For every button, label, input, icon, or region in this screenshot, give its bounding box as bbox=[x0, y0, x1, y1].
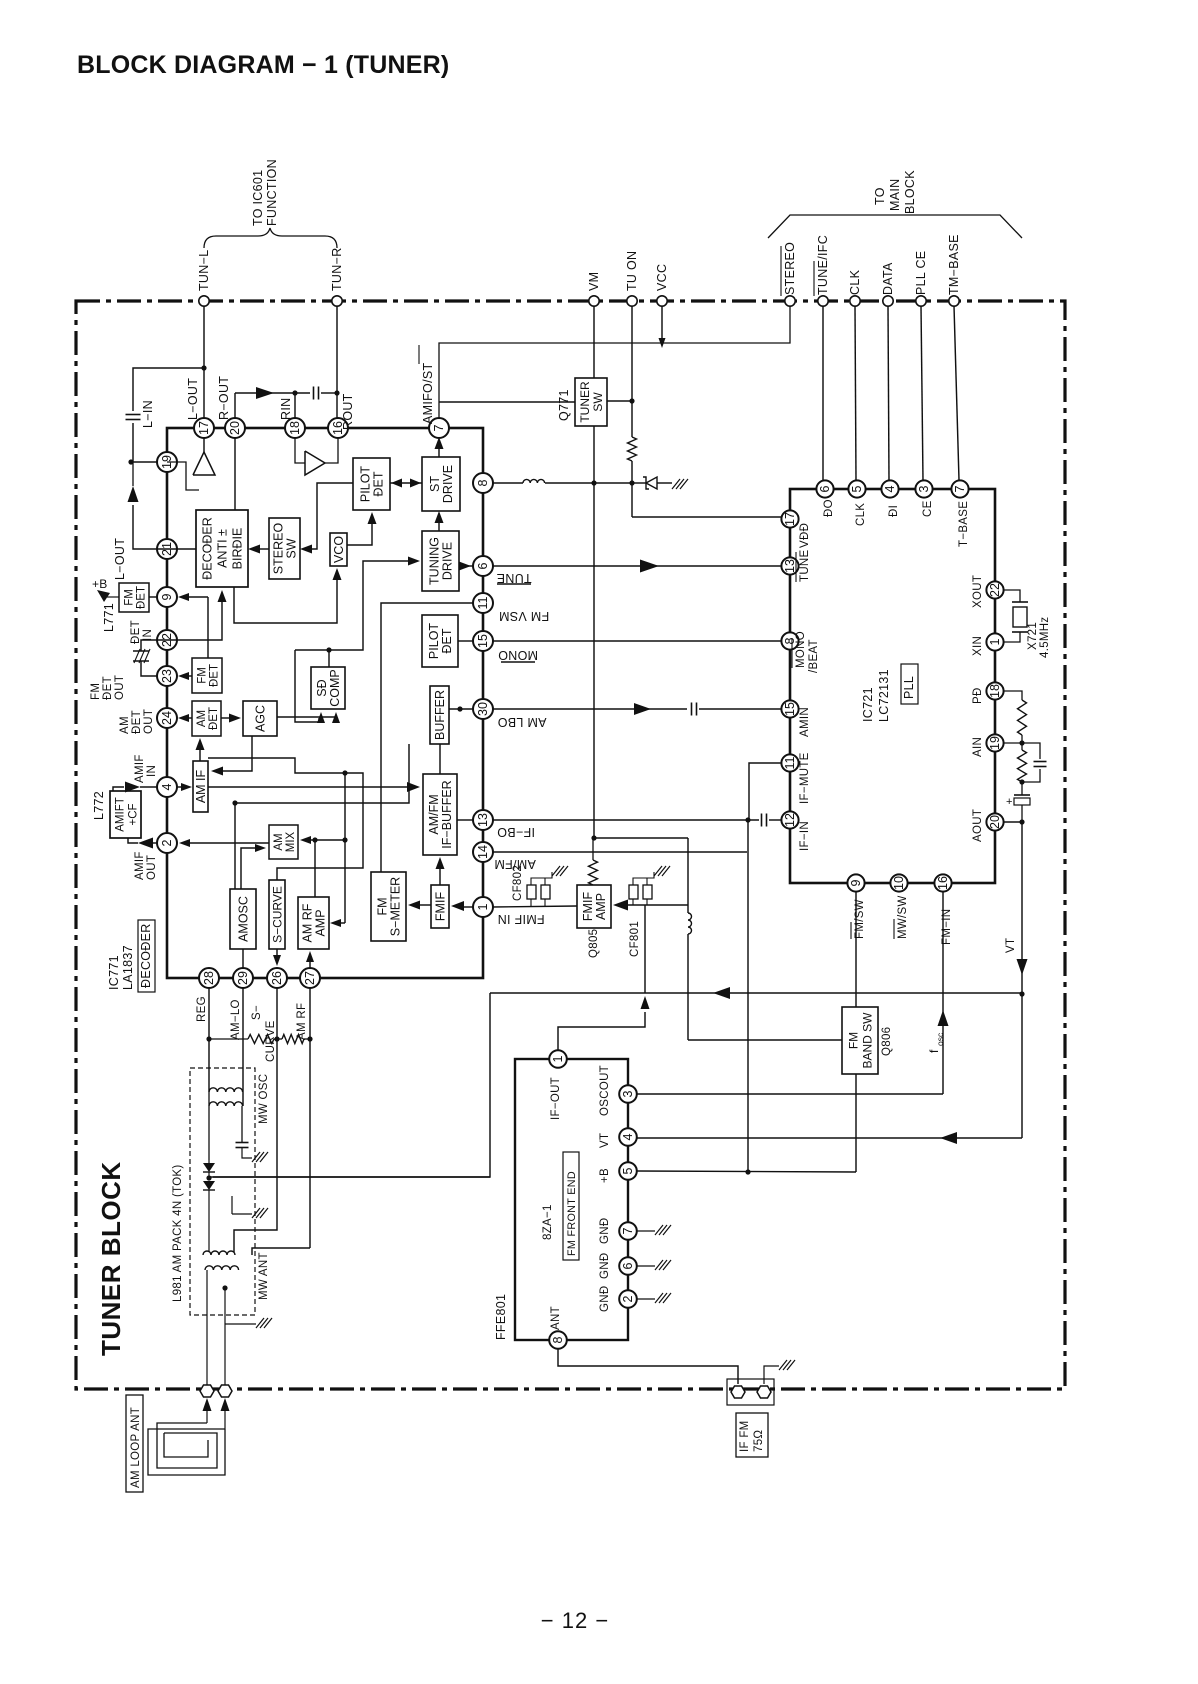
svg-text:OSCOUT: OSCOUT bbox=[599, 1065, 611, 1116]
electrolytic capacitor C723 bbox=[1006, 782, 1030, 822]
ceramic filter CF801 bbox=[629, 866, 670, 957]
wire pin2 to L772 arrow bbox=[128, 838, 158, 849]
block FM DET upper bbox=[119, 583, 149, 612]
svg-text:AMP: AMP bbox=[594, 893, 608, 920]
wire MONO pin15 to IC721 pin8 bbox=[492, 640, 781, 642]
svg-text:8: 8 bbox=[551, 1336, 565, 1343]
label AM DET OUT bbox=[119, 709, 155, 734]
pin 16 bbox=[328, 418, 348, 438]
svg-text:10: 10 bbox=[892, 876, 906, 890]
svg-text:VCO: VCO bbox=[332, 536, 346, 563]
wire AGC to SB COMP arrow 2 bbox=[277, 712, 340, 723]
label CE pin3 bbox=[922, 500, 934, 517]
wire AM RF line bbox=[307, 987, 312, 1248]
wire MW ANT left lead bbox=[206, 1270, 208, 1389]
svg-text:MAIN: MAIN bbox=[888, 179, 902, 211]
svg-text:PILOT: PILOT bbox=[359, 466, 373, 502]
label FM FRONT END boxed bbox=[563, 1152, 579, 1260]
svg-text:FM: FM bbox=[197, 667, 209, 684]
svg-text:ĐET: ĐET bbox=[136, 586, 148, 609]
label IF-IN bbox=[799, 821, 811, 851]
svg-text:AMIF: AMIF bbox=[134, 754, 146, 783]
svg-text:ĐET: ĐET bbox=[372, 471, 386, 496]
label TUNE pin13 bbox=[796, 549, 811, 582]
bracket TO MAIN BLOCK bbox=[768, 170, 1022, 238]
svg-text:RIN: RIN bbox=[279, 398, 293, 420]
label MW/SW bbox=[894, 895, 909, 939]
svg-text:TUNING: TUNING bbox=[428, 537, 442, 585]
wire DECODER bottom to VCO bbox=[234, 568, 342, 623]
component L772 AMIFT+CF bbox=[92, 791, 141, 838]
wire pin14 AM/FM bbox=[492, 851, 747, 853]
svg-text:IF−BUFFER: IF−BUFFER bbox=[440, 780, 454, 848]
svg-text:9: 9 bbox=[160, 593, 174, 600]
IC721 pin 10 bbox=[890, 874, 907, 891]
svg-text:CE: CE bbox=[922, 500, 934, 517]
FFE801 pin 8 bbox=[549, 1331, 567, 1349]
svg-text:f: f bbox=[927, 1049, 941, 1053]
pin 11 bbox=[473, 593, 493, 613]
svg-text:7: 7 bbox=[432, 424, 446, 431]
resistor R982 bbox=[274, 1035, 310, 1044]
pin 15 bbox=[473, 631, 493, 651]
svg-text:5: 5 bbox=[850, 485, 864, 492]
IC721 pin 4 bbox=[881, 480, 898, 497]
pin 8 bbox=[473, 473, 493, 493]
label f osc bbox=[927, 1032, 945, 1053]
pin 26 bbox=[267, 968, 287, 988]
svg-text:ĐET: ĐET bbox=[131, 710, 143, 734]
label XIN bbox=[972, 636, 984, 656]
pin 22 bbox=[157, 630, 177, 650]
svg-text:3: 3 bbox=[621, 1090, 635, 1097]
svg-text:LA1837: LA1837 bbox=[121, 945, 135, 990]
ground at pin7 bbox=[637, 1225, 671, 1235]
label MONO (rotated) bbox=[498, 648, 538, 662]
capacitor C722 parallel bbox=[1022, 743, 1047, 782]
IC721 pin 9 bbox=[847, 874, 864, 891]
connector pins AM ANT bbox=[200, 1385, 232, 1411]
wire AGC to AM IF arrow bbox=[211, 736, 252, 776]
svg-text:IN: IN bbox=[146, 765, 158, 777]
label FM-IN bbox=[941, 909, 953, 945]
IC721 pin 5 bbox=[848, 480, 865, 497]
svg-text:ĐECOĐER: ĐECOĐER bbox=[201, 517, 215, 580]
svg-text:L−IN: L−IN bbox=[141, 400, 155, 428]
label RIN bbox=[279, 398, 293, 420]
svg-text:ĐO: ĐO bbox=[823, 499, 835, 517]
svg-text:15: 15 bbox=[783, 702, 797, 716]
svg-text:20: 20 bbox=[228, 421, 242, 435]
svg-text:4: 4 bbox=[621, 1133, 635, 1140]
ceramic filter CF802 bbox=[512, 865, 568, 907]
IC721 designator labels bbox=[861, 664, 918, 722]
svg-text:L772: L772 bbox=[92, 791, 106, 820]
svg-text:AMIN: AMIN bbox=[799, 707, 811, 737]
tuner block border (dash-dot frame) bbox=[76, 301, 1065, 1389]
FFE801 pin 4 bbox=[619, 1128, 637, 1146]
pin 7 bbox=[429, 418, 449, 438]
svg-text:20: 20 bbox=[988, 815, 1002, 829]
wire CLK to pin5 bbox=[855, 306, 856, 480]
svg-text:CLK: CLK bbox=[848, 269, 862, 295]
svg-text:18: 18 bbox=[288, 421, 302, 435]
FFE801 pin 7 bbox=[619, 1222, 637, 1240]
svg-text:TUNE: TUNE bbox=[496, 571, 531, 585]
svg-text:9: 9 bbox=[849, 879, 863, 886]
IC721 pin 15 bbox=[781, 700, 798, 717]
FFE801 pin 2 bbox=[619, 1290, 637, 1308]
label 8ZA-1 bbox=[542, 1204, 554, 1240]
wire PILOT DET to STEREO SW bbox=[300, 483, 353, 554]
pin 21 bbox=[157, 539, 177, 559]
wire TU ON vertical bbox=[631, 306, 633, 437]
svg-text:MIX: MIX bbox=[285, 831, 297, 852]
svg-text:IF−IN: IF−IN bbox=[799, 821, 811, 851]
wire AM-LO line bbox=[242, 987, 244, 1106]
pin 27 bbox=[300, 968, 320, 988]
wire TUN-L to pin 17 bbox=[201, 306, 206, 419]
wire S-CURVE into pack bbox=[234, 1038, 277, 1252]
wire S-CURVE to pin26 arrow bbox=[273, 949, 281, 966]
IC771 designator labels bbox=[107, 920, 155, 992]
brace TO IC601 FUNCTION bbox=[204, 159, 337, 248]
svg-text:AM LOOP ANT: AM LOOP ANT bbox=[130, 1407, 142, 1488]
svg-text:24: 24 bbox=[160, 711, 174, 725]
block AM RF AMP bbox=[298, 897, 329, 949]
wire CF801 to Q805 arrow bbox=[613, 900, 688, 911]
wire SB COMP bottom arrow 1 bbox=[295, 650, 325, 723]
svg-text:4: 4 bbox=[160, 783, 174, 790]
wire AM DET to pin24 arrow bbox=[178, 714, 192, 722]
svg-text:FM: FM bbox=[847, 1032, 861, 1049]
wire pin9 net bbox=[178, 593, 208, 658]
wire IC721 pin11 IF-MUTE jog bbox=[749, 763, 781, 820]
svg-text:Q771: Q771 bbox=[557, 389, 571, 421]
svg-text:OUT: OUT bbox=[146, 855, 158, 880]
block AM DET bbox=[192, 701, 221, 736]
internal net y803 bbox=[235, 744, 409, 803]
label GND pin7 bbox=[599, 1218, 611, 1244]
wire FM DET lower to pin23 arrow bbox=[178, 672, 192, 680]
svg-text:IN: IN bbox=[142, 629, 154, 641]
wire FFE801 pin1 to IF line arrow bbox=[558, 996, 650, 1050]
svg-text:TO: TO bbox=[873, 187, 887, 205]
wire SB COMP feed bbox=[295, 557, 420, 668]
svg-text:22: 22 bbox=[988, 583, 1002, 597]
node TM-BASE bbox=[947, 234, 961, 306]
svg-text:12: 12 bbox=[783, 813, 797, 827]
wire FFE801 pin8 to FM jack bbox=[558, 1349, 738, 1384]
svg-text:SW: SW bbox=[285, 538, 299, 558]
block FMIF bbox=[431, 885, 449, 928]
label AOUT bbox=[972, 809, 984, 842]
svg-text:FMIF: FMIF bbox=[581, 892, 595, 922]
svg-text:8ZA−1: 8ZA−1 bbox=[542, 1204, 554, 1240]
svg-text:ĐI: ĐI bbox=[888, 505, 900, 517]
label AM/FM (rotated) bbox=[494, 857, 536, 871]
trimmer capacitor CT771 bbox=[133, 640, 158, 676]
IC721 pin 11 bbox=[781, 754, 798, 771]
svg-text:5: 5 bbox=[621, 1167, 635, 1174]
IC721 pin 1 bbox=[986, 633, 1003, 650]
svg-text:IF FM: IF FM bbox=[739, 1420, 751, 1452]
svg-text:ĐET: ĐET bbox=[209, 664, 221, 687]
svg-text:1: 1 bbox=[476, 903, 490, 910]
svg-text:VĐĐ: VĐĐ bbox=[799, 523, 811, 548]
label L-OUT pin21 bbox=[113, 538, 127, 580]
svg-text:TU ON: TU ON bbox=[625, 251, 639, 291]
svg-text:BIRĐIE: BIRĐIE bbox=[231, 528, 245, 570]
svg-text:7: 7 bbox=[953, 485, 967, 492]
svg-text:XOUT: XOUT bbox=[972, 575, 984, 608]
transistor Q805 FMIF AMP bbox=[577, 885, 611, 958]
svg-text:BLOCK: BLOCK bbox=[903, 170, 917, 214]
svg-text:26: 26 bbox=[270, 971, 284, 985]
svg-text:ANTI ±: ANTI ± bbox=[216, 529, 230, 568]
pin 24 bbox=[157, 708, 177, 728]
label REG bbox=[196, 996, 208, 1022]
label S-CURVE bbox=[251, 1005, 277, 1062]
node TUNE/IFC bbox=[814, 235, 830, 306]
svg-text:REG: REG bbox=[196, 996, 208, 1022]
svg-text:IF−MUTE: IF−MUTE bbox=[799, 752, 811, 804]
label AIN bbox=[972, 737, 984, 757]
wire TU ON to VDD pin17 of IC721 bbox=[632, 516, 790, 518]
svg-text:AM: AM bbox=[273, 833, 285, 850]
wire ST DRIVE to pin7 arrow bbox=[435, 437, 444, 457]
resistor R771 bbox=[628, 437, 637, 461]
svg-text:CLK: CLK bbox=[855, 503, 867, 526]
svg-text:VT: VT bbox=[1005, 938, 1017, 953]
wire coil line to Q806 bbox=[688, 1039, 842, 1041]
svg-text:L−OUT: L−OUT bbox=[186, 378, 200, 420]
wire AM IF output to IF-BUFFER bbox=[208, 782, 420, 792]
svg-text:2: 2 bbox=[160, 839, 174, 846]
label GND pin6 bbox=[599, 1253, 611, 1279]
block STEREO SW bbox=[269, 518, 300, 579]
svg-text:6: 6 bbox=[818, 485, 832, 492]
label TUNE (rotated) bbox=[496, 571, 531, 585]
svg-text:AMIFT: AMIFT bbox=[115, 797, 127, 832]
svg-text:STEREO: STEREO bbox=[272, 523, 286, 575]
page number bbox=[541, 1608, 609, 1633]
wire VM junction to coil line bbox=[594, 837, 688, 839]
svg-text:TO IC601: TO IC601 bbox=[251, 170, 265, 226]
svg-text:MONO: MONO bbox=[498, 648, 538, 662]
resistor R721 between PB and AIN bbox=[1004, 691, 1027, 746]
pin 13 bbox=[473, 810, 493, 830]
wire IF-BO junction down to +B line bbox=[745, 820, 750, 1175]
svg-text:16: 16 bbox=[936, 876, 950, 890]
wire L-IN branch with capacitor C(L-IN) bbox=[126, 368, 205, 465]
wire pin11 to FM S-METER bbox=[381, 603, 473, 872]
wire pin9 to Q806 bbox=[855, 892, 857, 1007]
node DATA bbox=[881, 262, 895, 306]
pin 17 bbox=[194, 418, 214, 438]
wire pin22 to DECODER bottom arrow bbox=[158, 590, 227, 640]
label ANT bbox=[550, 1306, 562, 1330]
svg-text:AMIF: AMIF bbox=[134, 851, 146, 880]
IC721 pin 13 bbox=[781, 557, 798, 574]
wire FM DET upper to pin9 bbox=[149, 596, 157, 598]
svg-text:L−OUT: L−OUT bbox=[113, 538, 127, 580]
ground at pin6 bbox=[637, 1260, 671, 1270]
svg-text:FFE801: FFE801 bbox=[494, 1294, 508, 1340]
svg-text:AMIFO/ST: AMIFO/ST bbox=[421, 363, 435, 424]
svg-text:FM FRONT END: FM FRONT END bbox=[566, 1171, 578, 1256]
wire FMIF to FM S-METER arrow bbox=[408, 901, 431, 910]
svg-text:FUNCTION: FUNCTION bbox=[265, 159, 279, 226]
svg-text:AGC: AGC bbox=[254, 705, 268, 732]
svg-text:1: 1 bbox=[551, 1055, 565, 1062]
label L-OUT pin17 bbox=[186, 378, 200, 420]
label FMIF IN (rotated) bbox=[497, 912, 544, 926]
pin 14 bbox=[473, 842, 493, 862]
svg-text:AMP: AMP bbox=[314, 909, 328, 936]
svg-text:15: 15 bbox=[476, 634, 490, 648]
svg-text:DRIVE: DRIVE bbox=[441, 465, 455, 503]
label GND pin2 bbox=[599, 1286, 611, 1312]
svg-text:AM: AM bbox=[196, 710, 208, 727]
label VDD bbox=[799, 523, 811, 548]
svg-text:19: 19 bbox=[988, 736, 1002, 750]
wire BUFFER to IF-BUFFER bbox=[439, 744, 441, 774]
svg-text:FMIF IN: FMIF IN bbox=[497, 912, 544, 926]
label VT arrow bbox=[1005, 938, 1028, 975]
label L-IN bbox=[141, 400, 155, 428]
svg-text:1: 1 bbox=[988, 638, 1002, 645]
label DET IN bbox=[130, 620, 154, 644]
wire AMOSC to AM MIX arrow bbox=[241, 844, 266, 889]
antenna AM LOOP ANT bbox=[126, 1395, 225, 1492]
block VCO bbox=[330, 533, 347, 566]
block DECODER ANTI BIRDIE bbox=[196, 510, 248, 587]
label AM LBO (rotated) bbox=[497, 715, 546, 729]
wire IF-BUFFER to pin13 bbox=[457, 819, 473, 821]
label IF-OUT bbox=[550, 1077, 562, 1120]
svg-text:CF801: CF801 bbox=[629, 921, 641, 957]
svg-text:GNĐ: GNĐ bbox=[599, 1253, 611, 1279]
wire pin2 to AM MIX bbox=[179, 839, 269, 847]
svg-text:DRIVE: DRIVE bbox=[441, 542, 455, 580]
svg-text:AMOSC: AMOSC bbox=[237, 896, 251, 942]
svg-text:Q805: Q805 bbox=[588, 929, 600, 958]
pin 18 bbox=[285, 418, 305, 438]
svg-text:TUNE/IFC: TUNE/IFC bbox=[816, 235, 830, 295]
label AM RF bbox=[296, 1003, 308, 1040]
svg-text:ĐET: ĐET bbox=[130, 620, 142, 644]
pin 2 bbox=[157, 833, 177, 853]
wire CF801 node down to front-end line bbox=[644, 905, 646, 993]
label DI bbox=[888, 505, 900, 517]
IC721 pin 20 bbox=[986, 813, 1003, 830]
svg-text:FM VSM: FM VSM bbox=[499, 609, 549, 623]
wire PILOT DET / ST DRIVE double arrow bbox=[390, 479, 422, 488]
wire IF-BO pin13 to IC721 pin12 bbox=[492, 814, 781, 827]
label FM DET OUT bbox=[90, 675, 126, 700]
svg-text:3: 3 bbox=[917, 485, 931, 492]
wire Q806 to +B line bbox=[855, 1074, 857, 1172]
pin 30 bbox=[473, 699, 493, 719]
pin 4 bbox=[157, 777, 177, 797]
pin 9 bbox=[157, 587, 177, 607]
transformer T982 MW ANT bbox=[203, 1251, 270, 1300]
svg-text:FM: FM bbox=[90, 683, 102, 700]
svg-text:11: 11 bbox=[476, 596, 490, 609]
wire VCO to PILOT DET arrow bbox=[347, 512, 377, 545]
svg-text:CF802: CF802 bbox=[512, 865, 524, 901]
IC721 pin 12 bbox=[781, 811, 798, 828]
label FM VSM (rotated) bbox=[499, 609, 549, 623]
svg-text:30: 30 bbox=[476, 702, 490, 716]
IC721 pin 22 bbox=[986, 581, 1003, 598]
svg-text:AM: AM bbox=[119, 716, 131, 734]
FFE801 pin 1 bbox=[549, 1050, 567, 1068]
svg-text:OUT: OUT bbox=[114, 675, 126, 700]
svg-text:6: 6 bbox=[476, 562, 490, 569]
internal net zigzag (S-curve feed) bbox=[208, 758, 363, 880]
wire REG line bbox=[206, 987, 211, 1092]
coil L801 bbox=[688, 838, 692, 1040]
connector FM jack bbox=[727, 1360, 795, 1405]
ground at pin2 bbox=[637, 1293, 671, 1303]
pin 1 bbox=[473, 897, 493, 917]
label T-BASE bbox=[958, 501, 970, 547]
svg-text:4: 4 bbox=[883, 485, 897, 492]
svg-text:11: 11 bbox=[783, 756, 797, 769]
node TUN-L bbox=[197, 250, 211, 307]
wire DATA to pin4 bbox=[888, 306, 889, 480]
svg-text:+CF: +CF bbox=[128, 803, 140, 825]
svg-text:S−METER: S−METER bbox=[389, 877, 403, 936]
svg-text:DATA: DATA bbox=[881, 262, 895, 295]
svg-text:8: 8 bbox=[476, 479, 490, 486]
svg-text:FM: FM bbox=[376, 897, 390, 915]
svg-text:L981 AM PACK 4N (TOK): L981 AM PACK 4N (TOK) bbox=[172, 1164, 184, 1302]
pin 20 bbox=[225, 418, 245, 438]
svg-text:IF−OUT: IF−OUT bbox=[550, 1077, 562, 1120]
svg-text:VM: VM bbox=[587, 272, 601, 291]
svg-text:S−: S− bbox=[251, 1005, 263, 1020]
wire pin27 to AM RF AMP arrow bbox=[306, 951, 314, 969]
svg-text:/BEAT: /BEAT bbox=[808, 639, 820, 673]
block AM MIX bbox=[269, 825, 298, 859]
node CLK bbox=[848, 269, 862, 306]
label IF-MUTE bbox=[799, 752, 811, 804]
component L981 AM PACK dashed box bbox=[172, 1068, 255, 1315]
wire L-OUT pin21 with up arrow bbox=[128, 462, 158, 549]
capacitor C981 with ground bbox=[236, 1143, 269, 1163]
svg-text:MW ANT: MW ANT bbox=[258, 1252, 270, 1300]
svg-text:+B: +B bbox=[599, 1168, 611, 1183]
IC721 pin 7 bbox=[951, 480, 968, 497]
wire pin16 fosc line bbox=[938, 892, 949, 1094]
svg-text:27: 27 bbox=[303, 971, 317, 985]
wire AM LBO pin30 to IC721 pin15 bbox=[457, 703, 781, 716]
block ST DRIVE bbox=[422, 457, 460, 511]
wire VM line down middle bbox=[591, 426, 596, 841]
svg-text:AM LBO: AM LBO bbox=[497, 715, 546, 729]
wire AM MIX input from right bbox=[300, 836, 348, 844]
node STEREO bbox=[781, 242, 797, 306]
IC IC721 LC72131 outline bbox=[790, 489, 995, 883]
wire STEREO SW to DECODER arrow bbox=[248, 545, 269, 554]
svg-text:SĐ: SĐ bbox=[315, 679, 329, 696]
block AM IF bbox=[193, 761, 208, 812]
svg-text:ANT: ANT bbox=[550, 1306, 562, 1330]
svg-text:IC771: IC771 bbox=[107, 955, 121, 990]
